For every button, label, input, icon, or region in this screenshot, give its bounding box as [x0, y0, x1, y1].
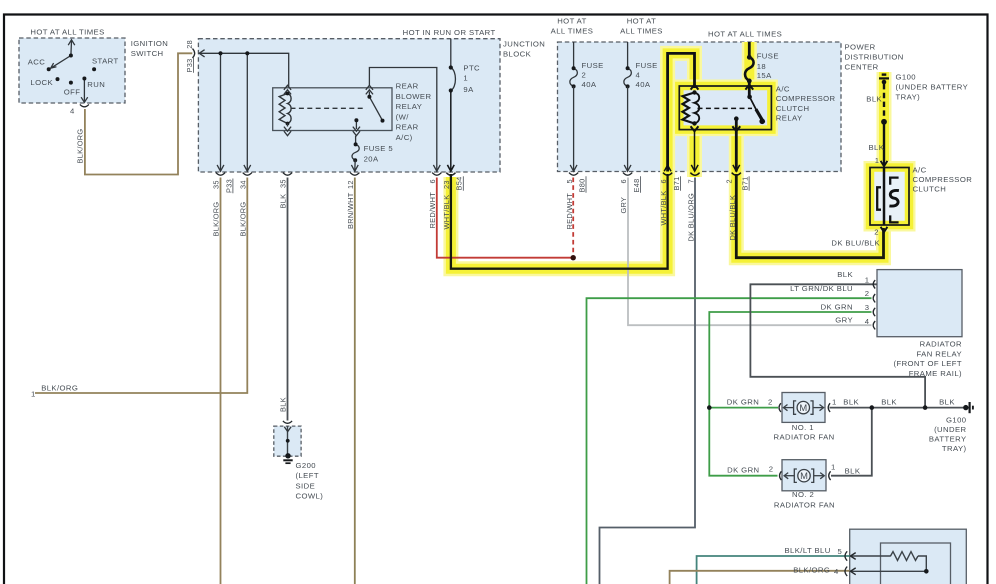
- ground chain splice dots: [707, 405, 927, 410]
- svg-text:1: 1: [875, 156, 880, 165]
- svg-text:HOT AT ALL TIMES: HOT AT ALL TIMES: [30, 28, 104, 37]
- svg-text:FAN RELAY: FAN RELAY: [916, 349, 962, 358]
- fuse 5 output to pin 12: [354, 160, 356, 170]
- svg-text:BLK: BLK: [837, 270, 853, 279]
- ignition switch contact dots: [47, 54, 96, 85]
- wire LT GRN/DK BLU fan relay pin 2: [587, 298, 872, 584]
- svg-text:TRAY): TRAY): [896, 92, 921, 101]
- WHT/BLK traced path: [451, 53, 695, 268]
- PDC fuse 2: [573, 42, 575, 68]
- svg-text:6: 6: [428, 179, 437, 183]
- svg-text:RED/WHT: RED/WHT: [428, 192, 437, 229]
- svg-text:PTC: PTC: [463, 64, 480, 73]
- vertical to pin 34: [246, 53, 248, 170]
- svg-text:DK GRN: DK GRN: [727, 397, 759, 406]
- no.1 radiator fan box: [782, 393, 825, 423]
- A/C compressor clutch box border: [870, 168, 909, 226]
- svg-text:A/C): A/C): [396, 133, 413, 142]
- blower resistor inner box: [881, 543, 951, 584]
- connector id underlines: [193, 58, 749, 193]
- svg-text:28: 28: [185, 40, 194, 49]
- svg-text:COWL): COWL): [296, 492, 324, 501]
- svg-text:BLK/ORG: BLK/ORG: [212, 202, 221, 237]
- svg-text:WHT/BLK: WHT/BLK: [659, 191, 668, 226]
- splice dot on BLK lead: [881, 119, 887, 125]
- svg-text:40A: 40A: [636, 80, 651, 89]
- LAYER: yellow highlight: [451, 42, 884, 269]
- svg-text:35: 35: [212, 180, 221, 189]
- G100 ground symbol bottom right: [963, 405, 968, 410]
- highlighted A/C relay + clutch boxes: [679, 86, 909, 225]
- svg-text:18: 18: [757, 62, 766, 71]
- wire BLK/ORG junction block pin 34 to left edge node 1: [35, 178, 247, 394]
- svg-text:FRAME RAIL): FRAME RAIL): [909, 369, 962, 378]
- svg-text:DISTRIBUTION: DISTRIBUTION: [845, 53, 904, 62]
- rear blower relay switch: [368, 92, 370, 97]
- radiator fan relay box: [877, 270, 962, 337]
- junction block pin brackets: [216, 173, 456, 176]
- svg-text:FUSE: FUSE: [636, 61, 658, 70]
- svg-text:2: 2: [582, 70, 587, 79]
- svg-text:6: 6: [619, 179, 628, 183]
- svg-text:GRY: GRY: [835, 315, 853, 324]
- svg-text:BLK: BLK: [881, 397, 897, 406]
- svg-text:DK BLU/BLK: DK BLU/BLK: [831, 239, 880, 248]
- A/C compressor clutch box highlight ring: [870, 168, 909, 226]
- rear blower relay coil: [279, 94, 287, 124]
- svg-text:G100: G100: [946, 416, 967, 425]
- wire BLK/LT BLU resistor pin 5: [697, 556, 850, 584]
- PDC fuse 4: [627, 42, 629, 68]
- A/C relay coil chevrons: [691, 85, 699, 90]
- wire RED/WHT fuse 2 output B80 (dashed): [572, 178, 574, 256]
- svg-text:SWITCH: SWITCH: [131, 49, 164, 58]
- svg-text:G200: G200: [296, 461, 317, 470]
- svg-text:NO. 1: NO. 1: [792, 423, 814, 432]
- svg-text:6: 6: [659, 179, 668, 183]
- splice dot RED/WHT: [571, 255, 576, 260]
- A/C compressor clutch internals: [883, 168, 886, 226]
- svg-text:G100: G100: [896, 73, 917, 82]
- svg-text:1: 1: [865, 275, 870, 284]
- PTC 1 element: [451, 68, 456, 91]
- A/C compressor clutch relay box border: [679, 86, 771, 130]
- svg-text:RELAY: RELAY: [776, 113, 803, 122]
- radiator fan relay pin brackets: [873, 280, 875, 329]
- wire DK BLU/ORG relay coil output pin 7: [600, 178, 696, 584]
- svg-text:ALL TIMES: ALL TIMES: [620, 27, 663, 36]
- blower resistor element: [851, 552, 927, 572]
- svg-text:ACC: ACC: [28, 58, 46, 67]
- svg-text:RADIATOR FAN: RADIATOR FAN: [774, 433, 835, 442]
- svg-text:1: 1: [31, 389, 36, 398]
- svg-text:(W/: (W/: [396, 113, 410, 122]
- PTC 1 feed from top edge: [450, 39, 452, 68]
- A/C compressor clutch relay box highlight ring: [679, 86, 771, 130]
- svg-text:DK BLU/ORG: DK BLU/ORG: [687, 193, 696, 242]
- svg-text:BLK: BLK: [843, 397, 859, 406]
- ignition switch box: [19, 38, 125, 103]
- svg-text:1: 1: [831, 463, 836, 472]
- svg-text:REAR: REAR: [396, 82, 419, 91]
- PDC pin brackets 5/B80 and 6/E48: [569, 173, 632, 176]
- svg-text:5: 5: [565, 179, 574, 183]
- G200 ground connector: [283, 421, 292, 423]
- svg-text:HOT IN RUN OR START: HOT IN RUN OR START: [403, 28, 496, 37]
- thick black: WHT/BLK inside PDC to A/C relay coil: [668, 53, 695, 171]
- svg-text:4: 4: [834, 567, 839, 576]
- svg-text:4: 4: [70, 107, 75, 116]
- svg-text:IGNITION: IGNITION: [131, 39, 169, 48]
- svg-text:M: M: [800, 470, 808, 481]
- svg-text:A/C: A/C: [913, 165, 927, 174]
- svg-text:LOCK: LOCK: [30, 78, 53, 87]
- svg-text:5: 5: [838, 547, 843, 556]
- svg-text:23: 23: [442, 180, 451, 189]
- ignition switch RUN output wire: [83, 79, 85, 102]
- svg-text:FUSE: FUSE: [757, 52, 779, 61]
- PTC output to pin 23: [450, 91, 452, 171]
- svg-text:SIDE: SIDE: [296, 481, 316, 490]
- svg-text:RED/WHT: RED/WHT: [565, 193, 574, 230]
- wire GRY fuse 4 output E48 to fan relay pin 4: [628, 178, 872, 326]
- DK BLU/BLK traced path: [736, 119, 883, 258]
- svg-text:(FRONT OF LEFT: (FRONT OF LEFT: [893, 359, 962, 368]
- svg-text:JUNCTION: JUNCTION: [503, 40, 545, 49]
- svg-text:2: 2: [865, 289, 870, 298]
- no.1 fan pin brackets: [779, 403, 781, 412]
- wire BLK fan relay pin 1 to ground splice: [750, 284, 925, 407]
- svg-text:BLK/LT BLU: BLK/LT BLU: [785, 546, 831, 555]
- svg-text:2: 2: [768, 397, 773, 406]
- BLK solid lead to clutch pin 1: [883, 122, 885, 165]
- svg-text:HOT AT: HOT AT: [627, 17, 657, 26]
- svg-text:B71: B71: [672, 176, 681, 190]
- svg-text:COMPRESSOR: COMPRESSOR: [913, 175, 973, 184]
- A/C relay dashed control line: [698, 107, 753, 109]
- fuse 18 feed: [744, 42, 754, 98]
- ignition switch arrow up to HOT AT ALL TIMES: [70, 41, 73, 56]
- wire RED/WHT junction block pin 6 to splice: [437, 178, 573, 258]
- wire BLK/ORG ignition pin 4 to junction block P33-28: [85, 53, 192, 174]
- svg-text:RADIATOR: RADIATOR: [920, 340, 962, 349]
- svg-text:(LEFT: (LEFT: [296, 471, 319, 480]
- svg-text:BLK/ORG: BLK/ORG: [239, 202, 248, 237]
- thick black: WHT/BLK trace below JB: [451, 174, 668, 269]
- svg-text:4: 4: [636, 70, 641, 79]
- svg-text:HOT AT ALL TIMES: HOT AT ALL TIMES: [708, 29, 782, 38]
- ground G200 box: [274, 426, 301, 456]
- rear blower relay box: [273, 88, 392, 131]
- wire DK GRN fan relay pin 3 to both fans: [709, 312, 871, 476]
- blower resistor outer box: [850, 529, 967, 584]
- wire BLK no.2 fan to splice: [831, 408, 872, 476]
- BLK dashed ground lead: [883, 84, 885, 120]
- svg-text:M: M: [799, 402, 807, 413]
- svg-text:BLK: BLK: [869, 143, 885, 152]
- svg-text:9A: 9A: [463, 85, 474, 94]
- svg-text:ALL TIMES: ALL TIMES: [551, 27, 594, 36]
- G100 ground symbol top right: [882, 73, 887, 75]
- svg-text:BLK/ORG: BLK/ORG: [793, 566, 830, 575]
- wire DK GRN splice to no.1 fan: [709, 407, 778, 409]
- svg-text:BLK: BLK: [939, 397, 955, 406]
- svg-text:(UNDER BATTERY: (UNDER BATTERY: [896, 82, 969, 91]
- junction block box: [198, 39, 500, 172]
- svg-text:4: 4: [865, 317, 870, 326]
- svg-text:CLUTCH: CLUTCH: [776, 104, 810, 113]
- svg-text:BRN/WHT: BRN/WHT: [346, 192, 355, 229]
- svg-text:P33: P33: [185, 58, 194, 72]
- svg-text:RELAY: RELAY: [396, 102, 423, 111]
- svg-text:A/C: A/C: [776, 85, 790, 94]
- ignition pin 4 bracket: [80, 104, 89, 106]
- svg-text:CENTER: CENTER: [845, 63, 879, 72]
- svg-text:BLK/ORG: BLK/ORG: [76, 129, 85, 164]
- svg-text:12: 12: [346, 180, 355, 189]
- svg-text:B71: B71: [741, 176, 750, 190]
- svg-text:FUSE: FUSE: [582, 61, 604, 70]
- svg-text:RUN: RUN: [87, 80, 105, 89]
- svg-text:1: 1: [463, 74, 468, 83]
- svg-text:POWER: POWER: [845, 43, 876, 52]
- svg-text:WHT/BLK: WHT/BLK: [442, 195, 451, 230]
- glow: DK BLU/BLK traced path: [736, 119, 883, 258]
- svg-text:34: 34: [239, 180, 248, 189]
- svg-text:BLK: BLK: [845, 467, 861, 476]
- svg-text:HOT AT: HOT AT: [557, 17, 587, 26]
- A/C relay coil: [683, 93, 695, 124]
- fuse 18 chevron at relay box: [745, 85, 753, 90]
- rear blower relay switch chevrons: [366, 85, 373, 90]
- svg-text:1: 1: [832, 397, 837, 406]
- svg-text:START: START: [92, 57, 119, 66]
- svg-text:TRAY): TRAY): [942, 444, 967, 453]
- rotated: junction block entry 28 P33: [76, 40, 750, 412]
- thick black: DK BLU/BLK trace to clutch: [736, 174, 883, 258]
- no.2 radiator fan box: [782, 460, 826, 491]
- junction block entry bracket 28/P33: [193, 49, 195, 58]
- A/C relay coil output to pin 7: [694, 131, 696, 170]
- svg-text:(UNDER: (UNDER: [934, 425, 966, 434]
- no.1 radiator fan motor: [783, 401, 823, 414]
- svg-text:BLK/ORG: BLK/ORG: [41, 384, 78, 393]
- clutch ground feed BLK: [879, 72, 889, 167]
- junction block top bus wire: [199, 53, 289, 87]
- wire BLK no.1 fan to G100 ground: [830, 407, 966, 409]
- svg-text:DK GRN: DK GRN: [727, 466, 759, 475]
- wire BLK/ORG junction block pin 35: [220, 178, 222, 584]
- A/C relay switch: [750, 97, 762, 120]
- svg-text:REAR: REAR: [396, 123, 419, 132]
- svg-text:BLK: BLK: [279, 194, 288, 209]
- A/C relay coil highlight blob: [677, 88, 702, 128]
- svg-text:DK GRN: DK GRN: [821, 302, 853, 311]
- svg-text:RADIATOR FAN: RADIATOR FAN: [774, 501, 835, 510]
- wire BLK junction block pin 35 to G200: [287, 178, 289, 421]
- svg-text:35: 35: [279, 179, 288, 188]
- svg-text:BLOWER: BLOWER: [396, 92, 432, 101]
- svg-text:BLK: BLK: [866, 95, 882, 104]
- svg-text:B54: B54: [455, 176, 464, 190]
- glow: fuse 18 feed: [742, 42, 757, 98]
- glow: relay switch arm: [750, 97, 763, 121]
- svg-text:7: 7: [687, 179, 696, 183]
- glow: clutch ground feed BLK: [877, 72, 892, 167]
- rear blower relay coil chevrons bottom: [284, 127, 291, 132]
- ignition switch wiper ACC arm: [52, 56, 71, 68]
- relay switch arm: [750, 97, 763, 121]
- svg-text:BLOCK: BLOCK: [503, 50, 532, 59]
- clutch pin 2 chevron: [881, 227, 888, 232]
- svg-text:OFF: OFF: [64, 88, 81, 97]
- svg-text:DK BLU/BLK: DK BLU/BLK: [728, 195, 737, 241]
- svg-text:NO. 2: NO. 2: [792, 490, 814, 499]
- bracket pin 6 B71: [663, 173, 672, 176]
- rear blower relay coil terminal chevrons top: [284, 85, 291, 90]
- svg-text:20A: 20A: [364, 154, 379, 163]
- fuse 5: [355, 136, 357, 145]
- svg-text:2: 2: [725, 179, 734, 183]
- svg-text:BLK: BLK: [279, 397, 288, 412]
- glow: WHT/BLK traced path: [451, 53, 695, 268]
- power distribution center box: [558, 42, 842, 172]
- svg-text:15A: 15A: [757, 71, 772, 80]
- svg-text:2: 2: [874, 228, 879, 237]
- no.2 fan pin brackets: [780, 471, 782, 480]
- wire BRN/WHT junction block pin 12: [354, 178, 356, 584]
- rear blower relay dashed control line: [291, 107, 367, 109]
- junction dots on top bus: [218, 51, 249, 55]
- svg-text:E48: E48: [632, 178, 641, 192]
- svg-text:COMPRESSOR: COMPRESSOR: [776, 94, 836, 103]
- A/C relay switched output pin 2: [735, 119, 738, 172]
- rear blower relay switched output to pin 6: [369, 68, 436, 171]
- svg-text:LT GRN/DK BLU: LT GRN/DK BLU: [790, 284, 853, 293]
- WHT/BLK entry arrow into PDC: [664, 165, 671, 171]
- svg-text:3: 3: [865, 303, 870, 312]
- wire BLK/ORG resistor pin 4: [670, 571, 850, 584]
- svg-text:GRY: GRY: [619, 197, 628, 214]
- svg-text:CLUTCH: CLUTCH: [913, 185, 947, 194]
- svg-text:BATTERY: BATTERY: [929, 435, 967, 444]
- svg-text:FUSE 5: FUSE 5: [364, 144, 393, 153]
- svg-text:40A: 40A: [582, 80, 597, 89]
- svg-text:2: 2: [769, 465, 774, 474]
- blower resistor pin arrows + brackets: [850, 553, 855, 560]
- svg-text:B80: B80: [577, 178, 586, 192]
- fuse 18 (thick): [748, 42, 751, 57]
- svg-text:P33: P33: [224, 179, 233, 193]
- no.2 radiator fan motor: [784, 469, 824, 482]
- vertical to pin 35: [220, 53, 222, 170]
